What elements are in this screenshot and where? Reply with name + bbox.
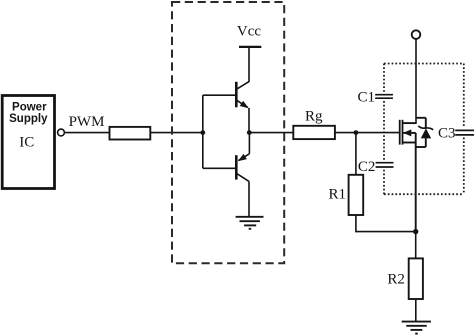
- wire: Q2 collector to ground: [248, 181, 250, 216]
- ground (output divider): [402, 322, 431, 334]
- channel bar: [402, 120, 404, 145]
- resistor R1: [349, 175, 364, 215]
- svg-text:C1: C1: [357, 89, 375, 105]
- capacitor C3 (drain-source): [455, 130, 474, 135]
- node: base junction dot: [200, 130, 205, 135]
- wire: Q2 base lead: [203, 167, 236, 169]
- svg-text:C3: C3: [438, 125, 456, 141]
- node: driver output junction dot: [247, 130, 252, 135]
- wire: resistor to base bus: [150, 132, 203, 134]
- Vcc supply bar: [239, 46, 261, 48]
- wire: R1 bottom to source node: [356, 215, 416, 232]
- wire: Rg to gate: [335, 132, 399, 134]
- capacitor C1 (gate-drain): [375, 95, 393, 99]
- wire: base bus vertical: [202, 95, 204, 168]
- resistor Rg: [293, 126, 335, 139]
- driver stage dashed box: [172, 2, 284, 263]
- body arrow lead: [403, 132, 416, 134]
- wire: R2 to ground: [415, 299, 417, 322]
- wire: output node to Rg: [249, 132, 293, 134]
- wire: terminal down to drain: [415, 39, 417, 123]
- svg-text:Vcc: Vcc: [237, 24, 261, 40]
- svg-text:Supply: Supply: [9, 113, 48, 125]
- node: source junction dot: [413, 229, 418, 234]
- svg-text:R1: R1: [328, 187, 346, 203]
- svg-text:Power: Power: [12, 101, 47, 113]
- svg-text:C2: C2: [358, 159, 376, 175]
- curved cathode bar: [418, 126, 433, 130]
- left edge segment C1 to C2: [383, 101, 385, 160]
- transistor Q1 (NPN, upper): [236, 82, 250, 111]
- svg-text:Rg: Rg: [305, 108, 323, 124]
- resistor (series gate input): [110, 127, 151, 140]
- wire: Q1 emitter down to output node: [248, 108, 250, 133]
- resistor R2: [409, 258, 423, 299]
- left edge segment below C2: [383, 170, 385, 195]
- right edge segment above C3: [463, 64, 465, 128]
- body diode branch: [416, 118, 434, 147]
- bottom edge: [384, 193, 464, 195]
- transistor Q2 (PNP, lower): [236, 133, 249, 182]
- wire: source node down to R2: [415, 232, 417, 259]
- node: gate junction dot: [354, 130, 359, 135]
- top bar to diode: [416, 117, 426, 119]
- wire: terminal to input resistor: [65, 132, 110, 134]
- drain terminal circle: [412, 30, 421, 39]
- wire: Q1 base lead: [203, 94, 236, 96]
- drain stub: [403, 122, 417, 124]
- power supply IC box: [2, 96, 54, 189]
- MOSFET Q3: [400, 120, 417, 232]
- source line: [415, 133, 417, 232]
- wire: Q1 collector to Vcc: [248, 47, 250, 82]
- wire: junction down to R1: [355, 133, 357, 175]
- right edge segment below C3: [463, 138, 465, 195]
- svg-text:PWM: PWM: [69, 114, 105, 130]
- top edge: [384, 63, 464, 65]
- diode D (body): [421, 128, 431, 138]
- ground (driver stage): [236, 217, 264, 229]
- capacitor C2 (gate-source): [376, 163, 394, 167]
- bottom bar: [416, 146, 426, 148]
- svg-text:IC: IC: [19, 134, 34, 150]
- left edge segment above C1: [383, 64, 385, 92]
- PWM output terminal circle: [58, 129, 65, 136]
- svg-text:R2: R2: [387, 272, 405, 288]
- parasitic capacitance dotted box: [384, 64, 464, 195]
- gate bar: [399, 120, 401, 145]
- source stub: [403, 142, 416, 144]
